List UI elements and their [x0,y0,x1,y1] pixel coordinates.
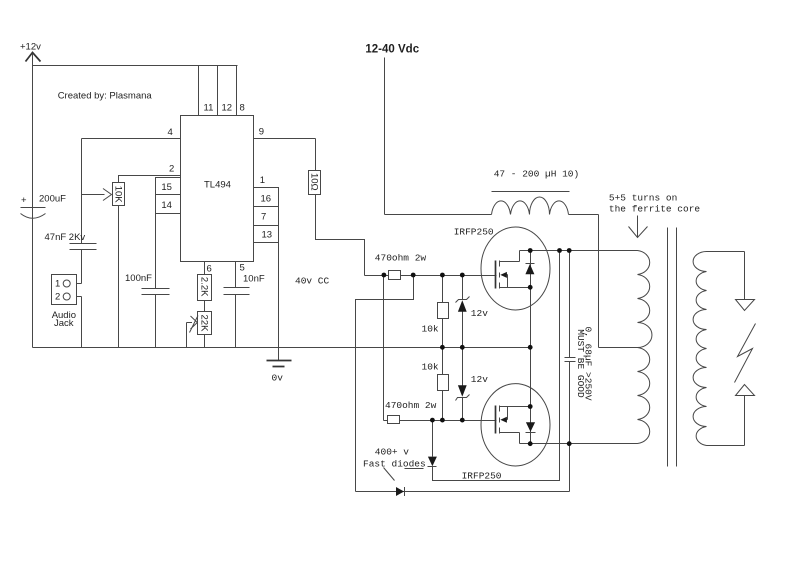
svg-text:8: 8 [240,103,245,114]
svg-text:+: + [21,195,27,206]
svg-text:IRFP250: IRFP250 [462,471,502,482]
svg-text:470ohm 2w: 470ohm 2w [385,400,437,411]
svg-text:14: 14 [161,200,172,211]
svg-text:Jack: Jack [54,318,74,329]
svg-text:11: 11 [204,103,214,114]
svg-text:5+5 turns on: 5+5 turns on [609,193,677,204]
svg-text:6: 6 [207,264,212,275]
svg-text:12: 12 [222,103,233,114]
svg-text:10k: 10k [422,362,439,373]
svg-text:the ferrite core: the ferrite core [609,204,701,215]
svg-text:12-40 Vdc: 12-40 Vdc [365,44,419,56]
svg-text:5: 5 [240,263,245,274]
svg-text:10k: 10k [422,324,439,335]
svg-text:47 - 200 µH 10): 47 - 200 µH 10) [494,169,580,180]
svg-text:16: 16 [261,194,272,205]
svg-text:40v CC: 40v CC [295,276,330,287]
svg-text:470ohm 2w: 470ohm 2w [375,253,427,264]
svg-text:10K: 10K [113,186,124,204]
svg-text:12v: 12v [471,308,488,319]
svg-text:2: 2 [55,292,60,303]
svg-text:TL494: TL494 [204,180,231,191]
svg-text:+12v: +12v [20,42,41,53]
svg-text:2: 2 [169,164,174,175]
svg-text:100nF: 100nF [125,273,152,284]
svg-text:7: 7 [261,212,266,223]
svg-text:Created by: Plasmana: Created by: Plasmana [58,91,153,102]
svg-text:22K: 22K [199,315,210,333]
svg-text:1: 1 [55,279,60,290]
svg-text:0v: 0v [272,373,284,384]
svg-text:47nF 2Kv: 47nF 2Kv [45,232,86,243]
svg-text:MUST BE GOOD: MUST BE GOOD [575,329,586,398]
svg-text:13: 13 [262,230,273,241]
svg-text:15: 15 [161,182,172,193]
svg-text:200uF: 200uF [39,194,66,205]
svg-text:2.2K: 2.2K [199,277,210,297]
svg-text:4: 4 [168,127,173,138]
svg-text:9: 9 [259,127,264,138]
svg-text:1: 1 [260,175,265,186]
svg-text:400+ v: 400+ v [375,447,410,458]
svg-text:Fast diodes: Fast diodes [363,459,426,470]
svg-text:10Ω: 10Ω [309,173,320,191]
svg-text:10nF: 10nF [243,274,265,285]
svg-text:IRFP250: IRFP250 [454,227,494,238]
svg-text:12v: 12v [471,374,488,385]
